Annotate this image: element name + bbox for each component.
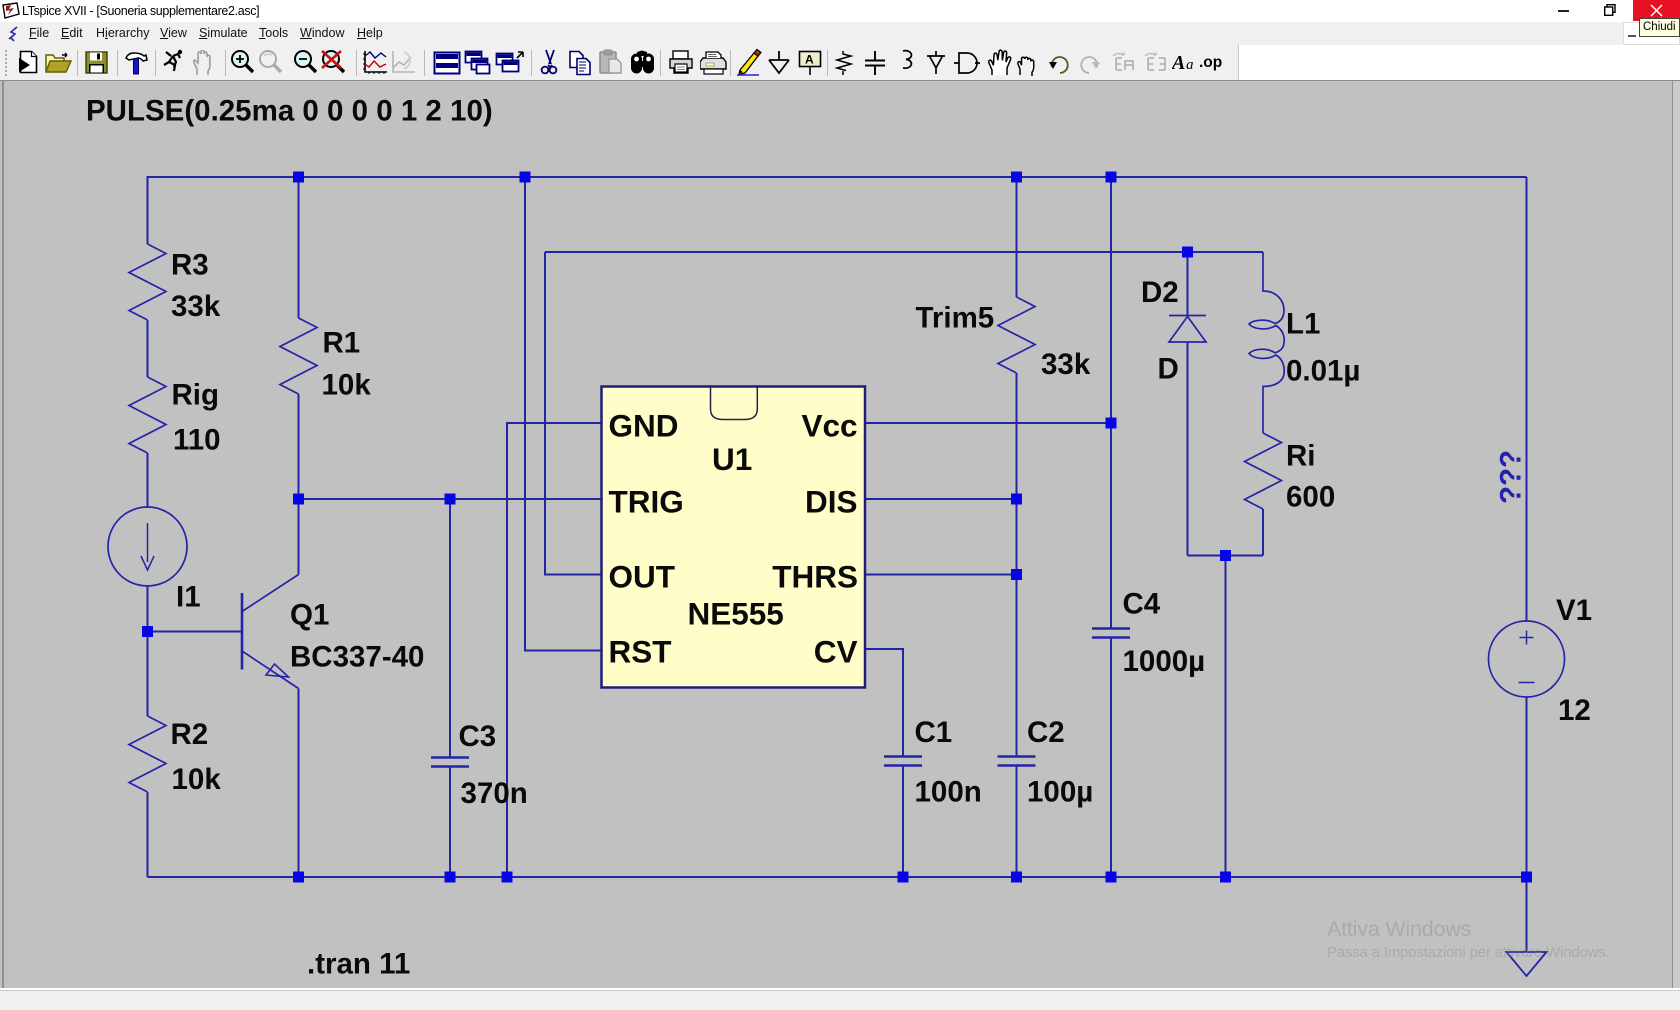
wire base — [148, 631, 243, 633]
wire out rail y252 — [545, 251, 1263, 253]
svg-text:a: a — [1186, 57, 1194, 73]
wire R1 column — [298, 177, 300, 318]
wire RST pin — [525, 177, 601, 651]
wire R3-Rig — [147, 320, 149, 377]
svg-text:R2: R2 — [171, 718, 209, 751]
LTspice logo — [2, 2, 20, 19]
wire to bottom from 1225 — [1225, 556, 1227, 878]
svg-text:R1: R1 — [323, 327, 361, 360]
wire C3 column — [449, 499, 451, 757]
svg-text:D: D — [1158, 353, 1179, 386]
svg-text:33k: 33k — [171, 290, 221, 323]
schematic text labels — [86, 95, 1592, 981]
svg-text:10k: 10k — [322, 369, 372, 402]
svg-text:Trim5: Trim5 — [916, 302, 995, 335]
wire I1-junction-R2 — [147, 586, 149, 716]
wire DIS pin — [865, 498, 1017, 500]
svg-text:C3: C3 — [459, 720, 497, 753]
wire R1-collector — [298, 394, 300, 575]
diode D2 — [1187, 252, 1189, 316]
svg-text:10k: 10k — [172, 763, 222, 796]
svg-text:600: 600 — [1286, 481, 1335, 514]
svg-text:370n: 370n — [461, 777, 528, 810]
wire THRS pin — [865, 574, 1017, 576]
svg-text:110: 110 — [173, 424, 221, 457]
svg-text:C4: C4 — [1123, 588, 1161, 621]
resistor R1 — [280, 318, 317, 394]
wire CV pin — [865, 649, 903, 756]
current source I1 — [108, 507, 187, 586]
op-amp U1 NE555 body — [602, 387, 866, 688]
MDI child buttons + tooltip — [1623, 22, 1680, 45]
svg-text:U1: U1 — [712, 441, 752, 477]
wire Vcc pin — [865, 422, 1111, 424]
resistor Rig — [129, 377, 166, 453]
wire top rail — [148, 176, 1527, 178]
capacitor C2 — [998, 755, 1036, 758]
capacitor C3 — [431, 756, 469, 759]
watermark — [1327, 917, 1610, 961]
wire R2-bottom — [147, 792, 149, 877]
svg-text:CV: CV — [814, 634, 858, 670]
capacitor C4 — [1092, 627, 1130, 630]
wire OUT pin — [545, 252, 601, 575]
wire emitter down — [298, 689, 300, 878]
menu bar — [0, 22, 1680, 45]
wire C4 column — [1110, 177, 1112, 628]
svg-text:100µ: 100µ — [1027, 776, 1093, 809]
title bar — [0, 0, 1680, 22]
svg-text:Rig: Rig — [172, 379, 220, 412]
svg-text:DIS: DIS — [805, 484, 858, 520]
wire left column top — [147, 176, 149, 244]
resistor Ri — [1245, 433, 1282, 509]
svg-text:NE555: NE555 — [688, 596, 784, 632]
svg-text:Vcc: Vcc — [801, 408, 857, 444]
svg-text:D2: D2 — [1141, 276, 1179, 309]
transistor Q1 — [241, 593, 244, 670]
svg-text:V1: V1 — [1556, 594, 1592, 627]
svg-text:I1: I1 — [176, 581, 201, 614]
svg-text:Attiva Windows: Attiva Windows — [1327, 917, 1471, 941]
svg-text:Ri: Ri — [1286, 440, 1316, 473]
svg-text:C1: C1 — [915, 716, 953, 749]
resistor R3 — [129, 244, 166, 320]
wire D2-L1 bottom — [1188, 555, 1264, 557]
svg-text:Passa a Impostazioni per attiv: Passa a Impostazioni per attivare Window… — [1327, 944, 1610, 961]
ground — [1507, 952, 1547, 976]
resistor Trim5 — [998, 297, 1035, 373]
inductor L1 — [1249, 252, 1284, 433]
svg-text:R3: R3 — [171, 249, 209, 282]
capacitor C1 — [884, 755, 922, 758]
svg-text:Q1: Q1 — [290, 599, 329, 632]
svg-text:BC337-40: BC337-40 — [290, 641, 424, 674]
wire Rig-I1 — [147, 453, 149, 507]
svg-text:12: 12 — [1558, 694, 1591, 727]
toolbar — [0, 45, 1238, 81]
svg-text:THRS: THRS — [772, 559, 858, 595]
U1 pin labels — [609, 408, 859, 670]
svg-text:???: ??? — [1495, 450, 1528, 504]
svg-text:A: A — [805, 53, 814, 67]
status bar — [0, 988, 1680, 990]
svg-text:1000µ: 1000µ — [1123, 645, 1206, 678]
svg-text:TRIG: TRIG — [609, 484, 684, 520]
wire bottom rail — [148, 876, 1527, 878]
svg-text:A: A — [1172, 52, 1185, 74]
svg-text:OUT: OUT — [609, 559, 676, 595]
svg-text:33k: 33k — [1041, 348, 1091, 381]
svg-text:PULSE(0.25ma 0 0 0 0 1 2 10): PULSE(0.25ma 0 0 0 0 1 2 10) — [86, 95, 493, 128]
svg-text:0.01µ: 0.01µ — [1286, 355, 1360, 388]
svg-text:.op: .op — [1199, 54, 1222, 71]
voltage source V1 — [1526, 177, 1528, 621]
svg-text:RST: RST — [609, 634, 672, 670]
wire Trim5 column — [1016, 177, 1018, 297]
window buttons — [1558, 10, 1569, 12]
wire GND pin — [507, 423, 601, 877]
resistor R2 — [129, 716, 166, 792]
svg-text:L1: L1 — [1286, 308, 1320, 341]
svg-text:GND: GND — [609, 408, 679, 444]
svg-text:.tran 11: .tran 11 — [307, 948, 410, 981]
svg-text:100n: 100n — [915, 776, 982, 809]
wire TRIG row — [299, 498, 602, 500]
svg-text:C2: C2 — [1027, 716, 1065, 749]
